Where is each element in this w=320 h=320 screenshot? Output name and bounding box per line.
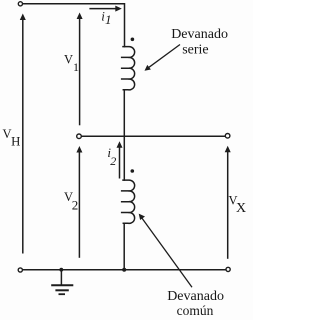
label V1 (64, 52, 79, 74)
svg-text:Devanado: Devanado (171, 27, 228, 42)
label VH (3, 127, 21, 148)
label Devanado comun (167, 289, 224, 318)
arrow V1 (voltage across series winding) (77, 13, 83, 126)
node a tap terminal circle (77, 134, 82, 139)
arrow i1 (series current) (89, 6, 121, 12)
polarity dot common winding (131, 169, 135, 173)
svg-text:común: común (177, 303, 214, 318)
svg-text:X: X (236, 201, 246, 216)
svg-text:V: V (64, 52, 73, 66)
wire top (H+ terminal to series winding) (23, 4, 125, 47)
arrow V2 (voltage across common winding) (76, 146, 82, 258)
node X- terminal circle (226, 267, 230, 271)
label V2 (64, 190, 78, 213)
label i1 (101, 8, 111, 27)
wire bottom vertical (common winding to bottom rail) (123, 223, 125, 269)
inductor L2 common winding (121, 180, 135, 223)
label i2 (107, 145, 116, 168)
svg-text:2: 2 (110, 154, 116, 168)
wire bottom rail (23, 269, 226, 271)
junction dot at common winding / bottom rail (122, 268, 126, 272)
ground symbol bars (51, 285, 73, 294)
polarity dot series winding (131, 38, 135, 42)
pointer arrow to common winding (139, 214, 192, 288)
inductor L1 series winding (121, 47, 135, 90)
node H+ terminal circle (18, 2, 22, 6)
label Devanado serie (171, 27, 228, 58)
svg-text:Devanado: Devanado (167, 289, 224, 304)
svg-text:2: 2 (72, 197, 79, 212)
svg-text:1: 1 (73, 60, 79, 74)
wire middle vertical (series to common winding through tap) (123, 90, 125, 180)
label VX (229, 193, 247, 216)
arrow VH (voltage across H port) (20, 14, 26, 254)
junction dot at ground stub (59, 268, 63, 272)
wire middle rail (tap node a) (81, 135, 225, 137)
svg-text:serie: serie (182, 42, 208, 57)
node X+ terminal circle (225, 134, 230, 139)
svg-text:H: H (11, 134, 20, 148)
svg-text:1: 1 (105, 12, 112, 27)
ground stub wire (60, 270, 62, 285)
arrow VX (voltage across X port) (225, 146, 231, 259)
pointer arrow to series winding (145, 45, 181, 71)
arrow i2 (common current) (117, 141, 123, 178)
node H- terminal circle (18, 268, 22, 272)
